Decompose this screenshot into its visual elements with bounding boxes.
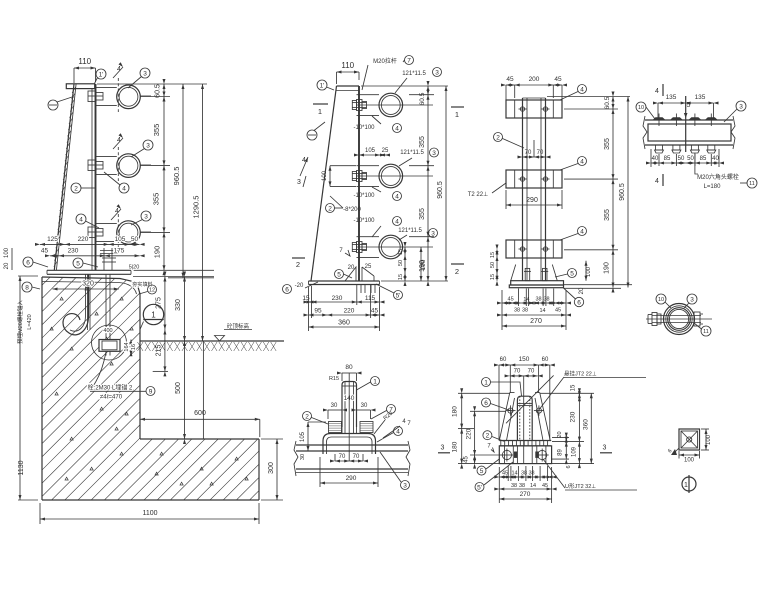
svg-text:100: 100: [706, 434, 712, 445]
gusset plates at base: [345, 267, 356, 281]
svg-text:355: 355: [152, 193, 161, 206]
svg-text:45: 45: [554, 76, 562, 83]
svg-text:300: 300: [268, 462, 275, 474]
dim 164 small: [130, 340, 132, 356]
left chain H 180 180: [461, 393, 463, 463]
plate diagonals: [681, 431, 698, 448]
svg-text:360: 360: [338, 320, 350, 327]
pipe rail 2: [117, 154, 141, 178]
svg-text:38: 38: [519, 483, 525, 489]
svg-text:8: 8: [25, 284, 29, 291]
svg-text:1': 1': [320, 82, 325, 89]
ground line: [140, 340, 284, 342]
balloon 11: [747, 178, 757, 188]
svg-text:6: 6: [566, 465, 572, 468]
svg-text:121*11.5: 121*11.5: [400, 150, 424, 156]
svg-text:121*11.5: 121*11.5: [398, 228, 422, 234]
dim 80: [342, 372, 357, 374]
bottom extension ticks H: [507, 466, 509, 481]
svg-text:3: 3: [143, 70, 147, 77]
svg-text:45: 45: [542, 483, 548, 489]
dim 1100 bottom: [40, 518, 259, 520]
svg-text:11: 11: [703, 329, 709, 335]
base ext lines right C: [564, 284, 633, 286]
beam break marks: [294, 441, 298, 476]
black squares H: [514, 452, 518, 458]
svg-text:2: 2: [496, 134, 500, 141]
svg-text:60: 60: [500, 357, 507, 363]
balloon 4 plate1: [578, 85, 587, 94]
svg-text:4: 4: [580, 158, 584, 165]
svg-text:-8*200: -8*200: [343, 207, 361, 213]
cross diagonal H: [506, 375, 554, 423]
svg-text:1: 1: [484, 379, 488, 386]
svg-text:14: 14: [511, 471, 517, 477]
svg-text:290: 290: [346, 475, 357, 482]
svg-text:960.5: 960.5: [172, 167, 181, 186]
svg-text:220: 220: [344, 308, 355, 315]
aggregate marks: [60, 297, 63, 300]
dim 110 top: [337, 71, 360, 73]
svg-text:11: 11: [749, 181, 755, 187]
bottom dims C row2: [502, 314, 566, 316]
balloon 3: [736, 101, 746, 111]
svg-text:115: 115: [365, 295, 376, 302]
dim 110 top: [74, 67, 96, 69]
svg-text:砼顶标高: 砼顶标高: [227, 322, 250, 330]
svg-text:45: 45: [506, 76, 514, 83]
svg-text:500: 500: [175, 382, 182, 394]
svg-text:355: 355: [604, 138, 611, 150]
svg-text:38: 38: [511, 483, 517, 489]
balloon 7 G: [387, 405, 396, 414]
svg-text:1: 1: [455, 110, 459, 119]
svg-text:4: 4: [396, 428, 400, 435]
svg-text:15: 15: [490, 274, 496, 280]
svg-text:3: 3: [435, 69, 439, 76]
plate1 bolt crosses: [519, 108, 527, 110]
balloon 10: [636, 102, 646, 112]
svg-text:-10*100: -10*100: [353, 193, 375, 199]
bracket plate pipe3: [96, 222, 117, 224]
dim 300 right: [276, 439, 278, 500]
bolt heads top: [653, 117, 666, 120]
svg-text:4: 4: [655, 88, 659, 95]
balloon 8 left: [22, 282, 32, 292]
dim 105 left: [307, 422, 309, 451]
balloon 2 G: [303, 412, 312, 421]
bolt on post row3: [352, 243, 356, 252]
svg-text:悬挂JT2 22⊥: 悬挂JT2 22⊥: [564, 370, 597, 378]
tapered edge hatch ticks: [72, 87, 75, 93]
balloon 6 left: [23, 257, 33, 267]
svg-text:270: 270: [530, 318, 542, 325]
svg-text:50: 50: [678, 156, 685, 162]
dim 100 base right: [585, 261, 587, 281]
svg-text:45: 45: [41, 248, 49, 255]
svg-text:45: 45: [371, 308, 379, 315]
dims 70 70 H: [510, 375, 538, 377]
dim 270 H: [499, 498, 551, 500]
svg-text:110: 110: [341, 61, 354, 70]
svg-text:1': 1': [99, 71, 104, 78]
svg-text:3: 3: [146, 142, 150, 149]
base connection bracket: [103, 248, 105, 270]
plate 2: [506, 170, 562, 188]
bottom chain H row1: [499, 476, 551, 478]
svg-text:70: 70: [528, 369, 535, 375]
svg-text:180: 180: [452, 441, 459, 452]
dims 45 200 45 top: [506, 84, 562, 86]
svg-text:38: 38: [514, 308, 520, 314]
svg-text:6: 6: [285, 286, 289, 293]
pipe stub: [342, 382, 357, 428]
earth hatch below ground: [138, 342, 144, 351]
svg-text:360: 360: [583, 419, 590, 430]
balloon 10 E: [656, 294, 666, 304]
flange plate H: [499, 440, 551, 442]
bolt head left: [652, 313, 657, 326]
dim 600: [140, 418, 260, 420]
dim chain right x164: [163, 84, 165, 270]
svg-text:30: 30: [361, 403, 368, 409]
ext verticals below base C: [518, 289, 520, 307]
mark 1 circle F: [682, 477, 696, 491]
svg-text:960.5: 960.5: [437, 181, 444, 199]
svg-text:1: 1: [318, 107, 322, 116]
right chain H 15 230 109 6: [578, 393, 580, 464]
svg-text:38: 38: [528, 471, 534, 477]
svg-text:60.5: 60.5: [604, 96, 611, 109]
right chain main C: [612, 97, 614, 288]
dim 360 bottom: [309, 326, 380, 328]
svg-text:1130: 1130: [18, 460, 25, 475]
balloon 3 pipe1: [140, 68, 150, 78]
svg-text:5: 5: [480, 468, 484, 475]
post cap plate: [66, 84, 94, 89]
svg-text:355: 355: [152, 124, 161, 137]
svg-text:38: 38: [522, 308, 528, 314]
svg-text:50: 50: [131, 236, 139, 243]
svg-text:2: 2: [328, 205, 332, 212]
balloon 5 base C: [568, 269, 577, 278]
balloon 4 pipe3: [76, 214, 86, 224]
center line H: [523, 376, 525, 464]
break marks: [643, 116, 647, 149]
svg-text:45: 45: [508, 297, 514, 303]
detail balloon circle around washer: [92, 325, 127, 360]
base block H: [499, 446, 551, 464]
small dims 15 50 15 left: [496, 250, 498, 281]
svg-text:40: 40: [712, 156, 719, 162]
balloon 3 pipe2: [143, 140, 153, 150]
dim 1130 left: [19, 276, 21, 500]
svg-text:2: 2: [486, 433, 490, 440]
dim 270 C: [502, 325, 566, 327]
svg-text:85: 85: [664, 156, 671, 162]
svg-text:80: 80: [345, 364, 353, 371]
gusset bolt crosses H: [508, 408, 513, 413]
svg-text:5': 5': [477, 484, 482, 491]
bottom dims C row1: [502, 302, 566, 304]
dim 100 bottom F: [679, 454, 700, 456]
bottom chain H row2: [499, 488, 551, 490]
svg-text:4: 4: [122, 185, 126, 192]
balloon 4 plate3: [578, 227, 587, 236]
svg-text:220: 220: [466, 428, 473, 439]
section mark 1 top: [313, 103, 328, 105]
dim 290: [506, 204, 562, 206]
view E: pipe clamp cross section: [664, 304, 695, 335]
svg-text:25: 25: [365, 264, 372, 270]
svg-text:70: 70: [514, 369, 521, 375]
svg-text:L=420: L=420: [27, 314, 33, 329]
detail mark 1 circle: [143, 304, 163, 324]
svg-text:220: 220: [78, 236, 89, 243]
svg-text:4: 4: [395, 193, 399, 200]
balloon 1 H: [482, 378, 491, 387]
balloon 4 plate2: [578, 157, 587, 166]
svg-text:60: 60: [542, 357, 549, 363]
svg-text:200: 200: [529, 76, 540, 83]
balloon 3 pipe3: [141, 211, 151, 221]
svg-text:30: 30: [300, 454, 306, 460]
svg-text:70: 70: [537, 150, 544, 156]
block bolt circles H: [502, 450, 511, 459]
svg-text:1290.5: 1290.5: [191, 196, 200, 219]
beam rails: [645, 119, 733, 121]
svg-text:275: 275: [156, 297, 163, 309]
svg-text:14: 14: [523, 297, 529, 303]
base splay: [511, 265, 516, 281]
right chain 15 50 15: [404, 247, 406, 281]
svg-text:15: 15: [490, 252, 496, 258]
svg-text:4: 4: [580, 86, 584, 93]
svg-text:105: 105: [300, 431, 306, 442]
leader to pile note: [91, 352, 106, 389]
balloon 2 with plate spec: [326, 204, 335, 213]
svg-text:95: 95: [314, 308, 322, 315]
column verticals: [522, 98, 524, 272]
bracket plate pipe1: [96, 86, 117, 88]
base plates C: [511, 281, 564, 285]
svg-text:3: 3: [431, 230, 435, 237]
balloon 6 -20: [283, 285, 292, 294]
rail beam under clamp: [296, 444, 408, 446]
dim 100 right F: [705, 429, 707, 450]
dim 960.5 right: [182, 84, 184, 278]
svg-text:25: 25: [382, 148, 389, 154]
post stub H: [517, 396, 532, 440]
svg-text:109: 109: [572, 446, 578, 457]
svg-text:70: 70: [525, 150, 532, 156]
svg-text:355: 355: [419, 136, 426, 148]
svg-text:15: 15: [398, 274, 404, 280]
svg-text:60.5: 60.5: [155, 84, 162, 98]
svg-text:3: 3: [441, 445, 445, 452]
svg-text:1100: 1100: [142, 510, 157, 517]
svg-text:110: 110: [78, 57, 91, 66]
svg-text:290: 290: [526, 197, 538, 204]
svg-text:70: 70: [353, 454, 360, 460]
dims above pier row2: [50, 255, 140, 257]
plate 1: [506, 100, 562, 118]
dims below row1: [309, 301, 380, 303]
svg-text:2: 2: [305, 413, 309, 420]
svg-text:270: 270: [520, 491, 531, 498]
plate2 bolt crosses: [519, 178, 527, 180]
svg-text:10: 10: [658, 297, 664, 303]
svg-text:20: 20: [4, 262, 10, 269]
dims 30 30: [328, 409, 342, 411]
svg-text:1: 1: [684, 482, 688, 489]
svg-text:5': 5': [396, 292, 401, 299]
bolt cluster pipe3: [88, 227, 96, 238]
balloon 6 H: [482, 398, 491, 407]
pipe rail 3: [117, 221, 141, 245]
svg-text:4: 4: [79, 216, 83, 223]
dim 960.5 B: [445, 86, 447, 281]
dim chain 275 215 right of pier: [164, 277, 166, 372]
balloon 1' top: [96, 69, 106, 79]
svg-text:3: 3: [603, 445, 607, 452]
balloon 6 base C: [574, 297, 583, 306]
svg-text:2: 2: [74, 185, 78, 192]
base plate of post: [47, 269, 131, 271]
svg-text:150: 150: [519, 356, 530, 363]
svg-text:175: 175: [114, 248, 125, 255]
svg-text:355: 355: [604, 209, 611, 221]
svg-text:164: 164: [124, 342, 130, 351]
right extension lines H: [540, 392, 594, 394]
svg-text:20: 20: [348, 265, 355, 271]
svg-text:180: 180: [452, 406, 459, 417]
pipe B1: [379, 93, 403, 117]
balloon 1 G: [371, 377, 380, 386]
svg-text:14: 14: [539, 308, 545, 314]
bracket plate pipe2: [96, 155, 117, 157]
tie rod 2: [357, 165, 380, 167]
dim 960.5 C: [627, 97, 629, 288]
bottom dim chain D: [651, 162, 719, 164]
base plate: [309, 280, 380, 282]
svg-text:6: 6: [26, 259, 30, 266]
svg-text:105: 105: [115, 236, 126, 243]
bolt cluster pipe2: [88, 160, 96, 171]
dim chain 330 500: [184, 277, 186, 440]
svg-text:135: 135: [695, 94, 706, 101]
svg-text:≠4ℓ=470: ≠4ℓ=470: [100, 394, 123, 401]
svg-text:3: 3: [297, 179, 301, 186]
pipe B2: [379, 164, 403, 188]
balloon 5' H: [475, 483, 484, 492]
dims 70 70: [523, 156, 546, 158]
svg-text:190: 190: [604, 262, 611, 274]
svg-text:5: 5: [570, 270, 574, 277]
svg-text:4: 4: [580, 228, 584, 235]
svg-text:215: 215: [156, 345, 163, 357]
saddle strap: [323, 434, 376, 455]
svg-text:230: 230: [68, 248, 79, 255]
svg-text:4: 4: [395, 125, 399, 132]
svg-text:38: 38: [535, 297, 541, 303]
balloon 5 H: [477, 466, 486, 475]
svg-text:9: 9: [149, 388, 153, 395]
dim 1290.5 right: [202, 84, 204, 341]
svg-text:50: 50: [687, 156, 694, 162]
elevation leader vertical: [202, 341, 204, 439]
svg-text:3: 3: [690, 296, 694, 303]
svg-text:190: 190: [153, 246, 162, 259]
svg-text:M20拉杆: M20拉杆: [373, 57, 397, 65]
svg-text:2: 2: [455, 267, 459, 276]
svg-text:-10*100: -10*100: [353, 125, 375, 131]
clamp nuts hatched: [329, 422, 342, 433]
svg-text:5|20: 5|20: [129, 265, 140, 271]
tie rod 3: [357, 236, 380, 238]
svg-text:100: 100: [322, 170, 328, 181]
section mark 1 left: [451, 106, 464, 108]
elevation symbol: [215, 336, 225, 342]
top dims 60 150 60: [499, 364, 550, 366]
nuts bottom: [656, 145, 663, 150]
svg-text:3: 3: [144, 213, 148, 220]
balloon 9: [146, 387, 155, 396]
svg-text:400: 400: [103, 328, 112, 334]
svg-text:4: 4: [655, 178, 659, 185]
svg-text:12: 12: [149, 287, 155, 293]
section mark 2 bottom: [292, 257, 305, 259]
svg-text:70: 70: [339, 454, 346, 460]
balloon 5' base: [394, 291, 403, 300]
svg-text:15: 15: [571, 384, 577, 391]
svg-text:R15: R15: [329, 376, 339, 382]
svg-text:89: 89: [558, 449, 564, 456]
balloon 2 H: [483, 431, 492, 440]
svg-text:30: 30: [331, 403, 338, 409]
balloon 5 pier: [73, 258, 83, 268]
svg-text:40: 40: [652, 156, 659, 162]
bolt extension lines D: [658, 154, 660, 166]
dim 320: [53, 288, 119, 290]
svg-text:960.5: 960.5: [619, 183, 626, 201]
dim 100 left of post: [329, 166, 331, 187]
balloon weld dash: [307, 130, 317, 140]
pipe B3: [379, 235, 403, 259]
balloon 7 top: [405, 56, 414, 65]
ext lines below baseplate B: [311, 286, 313, 318]
svg-text:2: 2: [296, 260, 300, 269]
balloon 2 post: [71, 183, 81, 193]
nut right: [694, 312, 700, 326]
svg-text:14: 14: [530, 483, 536, 489]
balloon 3 E: [687, 294, 697, 304]
right dim 190: [420, 247, 422, 281]
svg-text:60.5: 60.5: [419, 92, 426, 105]
dims 70 70 G: [335, 460, 363, 462]
bolt on post row2: [352, 172, 356, 181]
right chain H 20 89: [565, 433, 567, 459]
balloon 11 E: [701, 326, 711, 336]
svg-text:栓:2M30 L埋锚 2: 栓:2M30 L埋锚 2: [88, 384, 133, 392]
balloon 3 G: [401, 481, 410, 490]
svg-text:320: 320: [82, 281, 94, 288]
dims above pier row1: [40, 243, 140, 245]
post outline: [311, 86, 337, 281]
svg-text:100: 100: [684, 458, 695, 464]
bolt on post row1: [352, 101, 356, 110]
svg-text:5: 5: [687, 102, 691, 109]
